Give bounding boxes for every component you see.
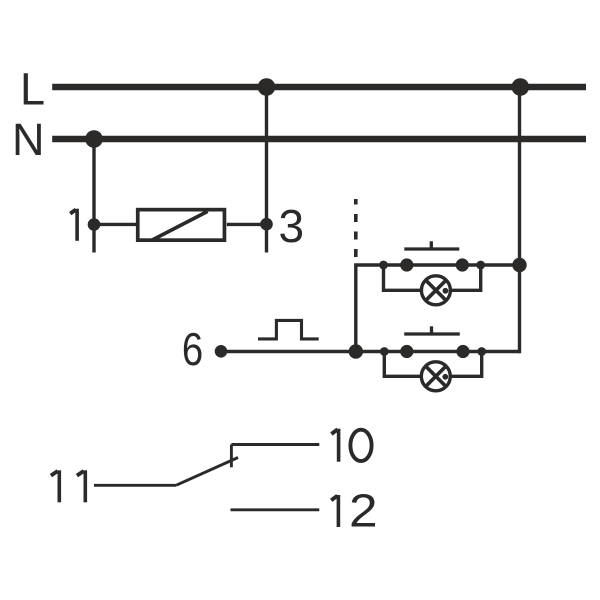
- dashed wire above lamp group: [354, 199, 358, 257]
- push button S2 contact dot right: [456, 345, 469, 358]
- push button S1 contact dot left: [400, 258, 413, 271]
- lamp E2 inner dot: [442, 374, 448, 380]
- terminal 10 contact stub: [230, 445, 233, 468]
- push button S1 bar: [404, 247, 459, 250]
- terminal 1 label: [70, 209, 77, 241]
- small node dot upper right: [476, 261, 485, 270]
- push button S2 actuator tick: [430, 326, 433, 334]
- terminal 6 dot: [215, 345, 228, 358]
- small node dot lower right: [477, 347, 486, 356]
- small node dot lower left: [380, 347, 389, 356]
- changeover switch arm: [176, 458, 238, 486]
- push button S2 contact dot left: [400, 345, 413, 358]
- wire N bus: [52, 136, 586, 142]
- wire coil box to terminal 3: [227, 223, 267, 226]
- junction on L at x=266: [258, 78, 276, 96]
- wire from N down to terminal 1: [92, 139, 95, 253]
- lamp E1 cross: [426, 280, 447, 301]
- lamp E1 circle: [421, 276, 450, 305]
- terminal 10 label: [331, 429, 371, 462]
- svg-text:3: 3: [279, 200, 305, 252]
- wire left side of upper lamp group: [356, 265, 520, 352]
- push button S2 bar: [404, 332, 460, 335]
- wire from L down through terminal 3: [265, 87, 268, 253]
- wire lamp E1 bypass: [384, 265, 481, 290]
- lamp E2 cross: [426, 366, 447, 387]
- relay coil box K1: [138, 210, 225, 241]
- svg-text:6: 6: [182, 323, 203, 375]
- wire lamp E2 bypass: [384, 352, 481, 377]
- junction on L at x=520: [512, 78, 530, 96]
- junction dot lower left: [349, 344, 363, 358]
- svg-text:N: N: [12, 114, 45, 165]
- wire L bus: [52, 84, 586, 90]
- svg-text:L: L: [20, 63, 45, 114]
- terminal 3 dot: [260, 218, 273, 231]
- wire from L down right branch: [518, 87, 521, 353]
- junction dot on right branch: [512, 258, 526, 272]
- terminal 10 contact line: [231, 443, 319, 446]
- relay coil box diagonal: [152, 211, 207, 240]
- wire terminal 6 to lamp groups: [221, 350, 520, 353]
- junction on N at x=94: [85, 130, 103, 148]
- wire terminal 11: [94, 484, 176, 487]
- lamp E2 circle: [421, 362, 450, 391]
- terminal 1 dot: [88, 218, 101, 231]
- terminal 11 label: [51, 470, 85, 502]
- push button S1 actuator tick: [430, 241, 433, 249]
- wire terminal 1 to coil box: [94, 223, 137, 226]
- terminal 12 label: [331, 485, 377, 537]
- terminal 12 contact line: [231, 508, 320, 511]
- push button S1 contact dot right: [456, 258, 469, 271]
- pulse symbol: [258, 320, 319, 339]
- small node dot upper left: [379, 261, 388, 270]
- lamp E1 inner dot: [443, 288, 449, 294]
- svg-text:2: 2: [349, 485, 378, 537]
